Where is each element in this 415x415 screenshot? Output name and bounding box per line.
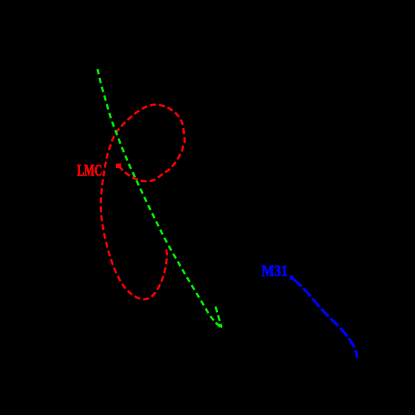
svg-text:M31: M31 <box>262 263 288 280</box>
svg-text:LMC: LMC <box>77 163 102 180</box>
